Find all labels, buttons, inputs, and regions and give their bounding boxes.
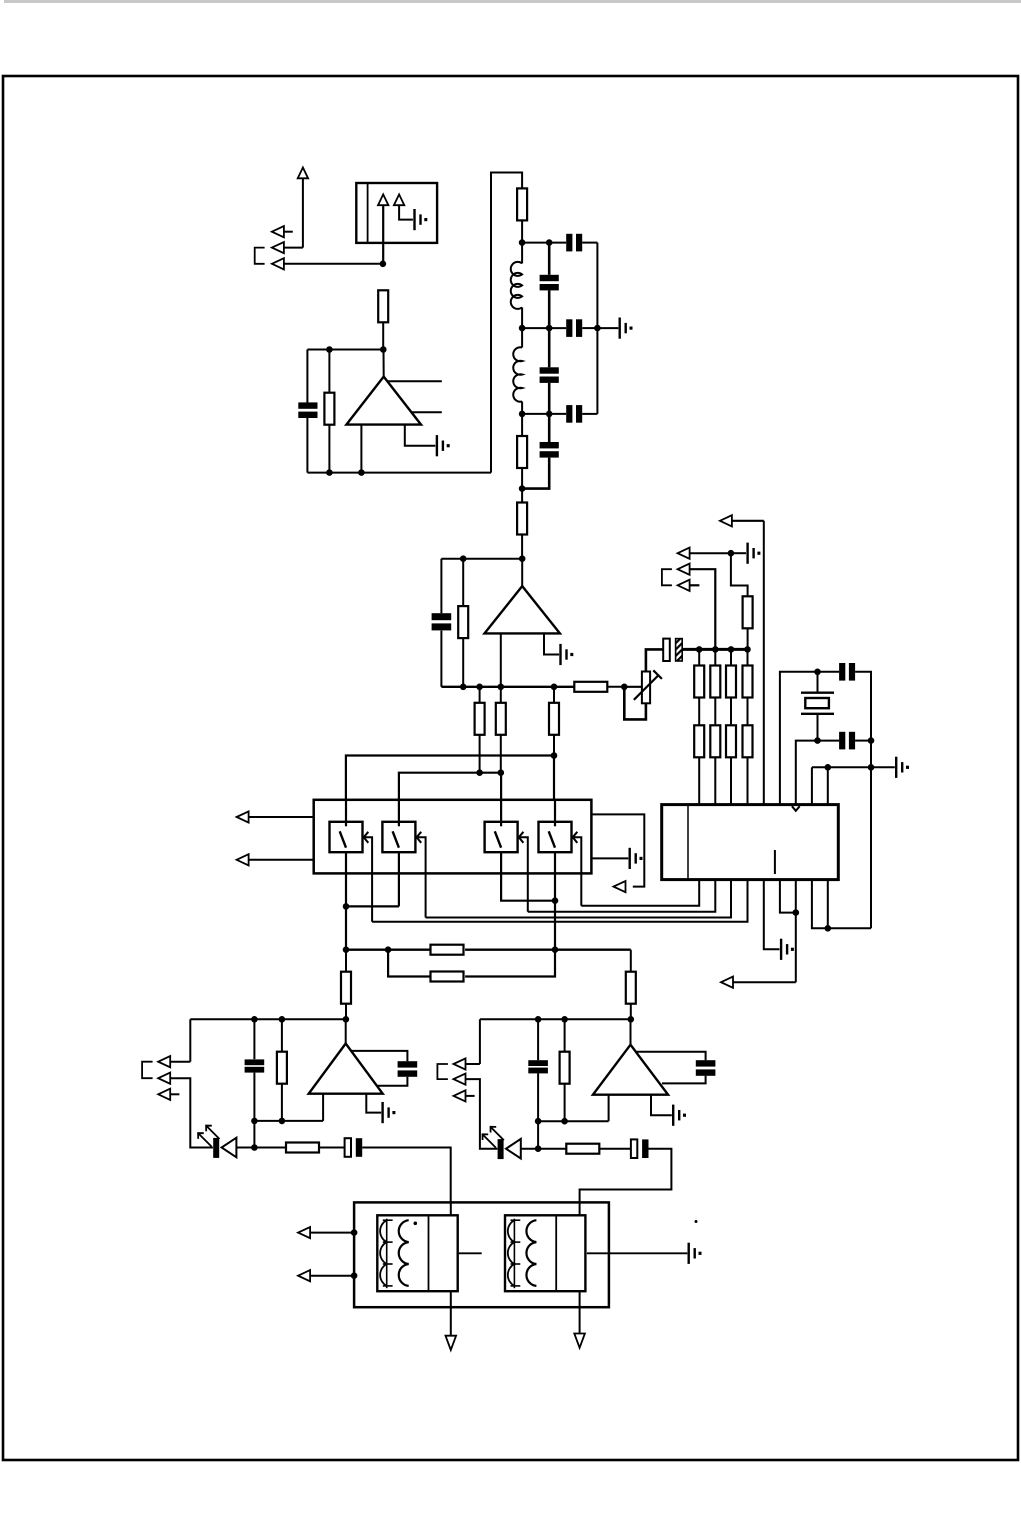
inductor L1 <box>511 243 522 329</box>
crystal Q1 <box>801 672 834 744</box>
net bus DATA <box>682 646 751 653</box>
resistor R21 <box>431 945 464 955</box>
transformer T1 stub <box>458 1252 482 1254</box>
connector arrow J15 <box>454 1019 480 1069</box>
wire U4 pin3 to S2 ctrl <box>426 880 731 918</box>
connector arrow J6 <box>678 564 716 650</box>
U7 right leg <box>651 1095 672 1116</box>
resistor R25 <box>277 1019 287 1124</box>
resistor R5 <box>517 489 527 559</box>
op-amp U7 <box>593 1019 668 1094</box>
switch S4 control arrow <box>573 832 582 906</box>
wire feed riser <box>491 173 522 473</box>
U2 input stub 2 <box>411 411 442 413</box>
U6 right leg <box>366 1094 381 1113</box>
wire S1 bottom <box>343 852 399 950</box>
capacitor C12 <box>245 1019 265 1150</box>
ground GND8 <box>629 848 643 869</box>
inductor L2 <box>513 328 522 414</box>
resistor R20 <box>743 725 753 804</box>
trimmer R11 <box>634 670 662 703</box>
resistor R15 <box>726 649 736 725</box>
wire U4 pin1 to S4 ctrl <box>581 880 699 906</box>
op-amp U2 <box>346 350 421 425</box>
capacitor C15 <box>528 1019 548 1152</box>
wire U4 pin5 gnd <box>764 880 780 950</box>
resistor R23 <box>341 950 351 1020</box>
connector arrow J11 <box>614 881 626 892</box>
connector arrow J10 <box>237 854 314 865</box>
node D rung2 <box>519 325 566 332</box>
wire S3 bottom <box>501 852 558 904</box>
capacitor C10 <box>818 663 872 741</box>
resistor R14 <box>710 649 720 725</box>
module box U1 <box>356 183 437 243</box>
resistor R27 <box>560 1019 570 1124</box>
page top gray bar <box>4 0 1021 3</box>
capacitor C6 <box>566 405 597 423</box>
wire cap branch <box>440 559 442 687</box>
node G rail <box>441 555 525 562</box>
U7 left leg <box>608 1095 610 1122</box>
ground GND2 <box>436 435 450 456</box>
resistor R19 <box>726 725 736 804</box>
capacitor C14 (polarized) <box>345 1138 451 1215</box>
connector arrow J13 <box>158 1073 213 1148</box>
wire rail leg2 <box>827 767 829 804</box>
resistor R17 <box>694 725 704 804</box>
resistor R7 <box>574 682 624 692</box>
connector arrow P1 (up) <box>298 168 308 248</box>
wire left branch <box>306 350 308 473</box>
pin arrow U1-A (up) <box>378 194 388 263</box>
node F <box>519 485 526 492</box>
switch block U5 box <box>314 800 592 874</box>
U2 left leg <box>326 425 365 476</box>
capacitor C1 <box>298 402 317 418</box>
IC U4 box <box>662 805 839 880</box>
switch S1 <box>330 800 363 852</box>
capacitor C11 <box>818 732 875 750</box>
U6 left leg <box>322 1094 324 1121</box>
connector arrow J8 <box>721 977 733 988</box>
net rail L2 <box>254 1120 323 1122</box>
connector arrow J2 <box>272 242 284 253</box>
wire T2 out <box>587 1252 687 1254</box>
switch S2 <box>382 800 415 852</box>
wire S2 bottom <box>398 852 400 906</box>
resistor R12 <box>731 553 753 649</box>
switch S2 control arrow <box>417 832 426 918</box>
connector arrow J7 (stub) <box>678 580 700 591</box>
capacitor C13 feedback <box>351 1051 417 1086</box>
ground GND9 <box>381 1102 395 1123</box>
capacitor C9 (polarized) <box>663 639 682 661</box>
switch S4 <box>539 800 572 852</box>
op-amp U3 <box>485 559 560 634</box>
connector arrow J17 (stub) <box>454 1090 475 1101</box>
connector arrow J18 <box>298 1227 357 1238</box>
connector arrow J5 <box>678 548 746 559</box>
connector arrow J14 (stub) <box>158 1089 179 1100</box>
net AGND rail <box>812 741 895 771</box>
connector arrow J1 (stub) <box>272 226 293 237</box>
ground GND4 <box>559 644 573 665</box>
resistor R16 <box>743 649 753 725</box>
connector arrow J16 <box>454 1074 498 1149</box>
wire U4 pin7 out <box>733 880 799 983</box>
connector bracket X4 <box>437 1064 448 1079</box>
connector bracket X1 <box>255 248 265 264</box>
transformer T1 <box>377 1215 457 1291</box>
ground GND11 <box>688 1220 702 1264</box>
capacitor C7 <box>522 414 559 489</box>
node E rung3 <box>519 411 566 418</box>
capacitor C4 <box>566 319 618 337</box>
resistor R22 <box>388 950 555 982</box>
wire bottom rail U2 <box>307 472 491 474</box>
node A (junction) <box>380 261 387 268</box>
connector bracket X2 <box>662 569 672 585</box>
wire T1 bottom pin <box>450 1291 452 1336</box>
ground GND7 <box>780 939 794 960</box>
transformer block box <box>354 1202 609 1307</box>
switch S1 control arrow <box>364 832 372 922</box>
ground GND3 <box>619 318 633 339</box>
wire U4 pin6 <box>780 880 796 913</box>
capacitor C17 (polarized) <box>580 1139 672 1215</box>
connector arrow J4 <box>720 515 764 526</box>
net bus U3 out <box>441 684 574 691</box>
capacitor C2 <box>566 234 597 414</box>
connector arrow J19 <box>298 1270 357 1281</box>
resistor R1 <box>378 290 388 349</box>
ground GND10 <box>672 1105 686 1126</box>
capacitor C16 feedback <box>636 1052 715 1084</box>
node C rung1 <box>519 239 566 246</box>
ground GND1 <box>413 209 427 230</box>
wire U5 enable <box>591 814 644 886</box>
U2 right leg <box>405 425 436 446</box>
capacitor C3 <box>540 243 559 329</box>
net rail L <box>190 1016 349 1023</box>
net bus OUT <box>343 946 631 953</box>
resistor R26 <box>254 1143 344 1153</box>
wire to trimmer <box>624 686 642 688</box>
resistor R3 <box>517 188 527 242</box>
wire xtal top leg <box>780 669 821 805</box>
wire P1 to J2 <box>284 247 303 249</box>
wire T1 top pin <box>450 1202 452 1215</box>
switch S3 control arrow <box>519 832 528 912</box>
wire J4 riser <box>763 521 765 805</box>
op-amp U6 <box>309 1019 383 1093</box>
wire S4 top pin <box>553 756 555 801</box>
wire S1 top net <box>346 756 554 801</box>
U3 left leg <box>500 633 502 686</box>
wire rail leg1 <box>811 767 813 804</box>
net rail R <box>480 1016 634 1023</box>
wire U4 pin4 to S1 ctrl <box>372 880 747 922</box>
connector arrow J12 <box>158 1019 190 1067</box>
wire T2 top pin <box>579 1202 581 1215</box>
capacitor C8 <box>432 613 452 630</box>
LED D2 <box>483 1127 539 1159</box>
resistor R4 <box>517 414 527 489</box>
U3 right leg <box>544 633 559 654</box>
wire trimmer top <box>646 649 663 671</box>
node H <box>621 684 628 691</box>
wire U4 pin2 to S3 ctrl <box>528 880 716 912</box>
wire T2 bottom pin <box>579 1291 581 1333</box>
connector arrow J20 (down) <box>446 1336 457 1350</box>
IC U4 clock chevron <box>792 806 800 811</box>
ground GND5 <box>746 543 760 564</box>
connector arrow J21 (down) <box>574 1334 585 1348</box>
connector arrow J9 <box>237 811 314 822</box>
net rail R2 <box>538 1120 609 1122</box>
resistor R18 <box>710 725 720 804</box>
resistor R13 <box>694 649 704 725</box>
wire U4 pin9 <box>825 880 872 932</box>
switch S3 <box>485 800 518 852</box>
connector bracket X3 <box>142 1062 153 1079</box>
connector arrow J3 <box>272 258 383 269</box>
capacitor C5 <box>540 328 559 414</box>
resistor R6 <box>458 559 468 687</box>
trimmer bottom loop <box>624 687 646 720</box>
resistor R28 <box>538 1144 631 1154</box>
resistor R9 <box>496 687 506 776</box>
ground GND6 <box>895 757 909 778</box>
wire U5 gnd <box>591 857 628 859</box>
resistor R8 <box>475 687 485 776</box>
transformer T2 <box>505 1215 585 1291</box>
resistor R24 <box>626 950 636 1020</box>
node B rail <box>307 346 386 353</box>
wire S2 top net <box>399 773 501 801</box>
wire S4 bottom <box>554 852 556 950</box>
wire U4 pin8 <box>812 880 828 929</box>
wire S3 top pin <box>500 773 502 801</box>
wire xtal bottom leg <box>796 741 818 805</box>
resistor R2 <box>324 350 334 473</box>
pin arrow U1-B (up) <box>394 194 413 219</box>
wire right riser <box>870 767 872 928</box>
U2 input stub 1 <box>387 380 441 382</box>
resistor R10 <box>549 687 559 759</box>
LED D1 <box>198 1126 254 1158</box>
